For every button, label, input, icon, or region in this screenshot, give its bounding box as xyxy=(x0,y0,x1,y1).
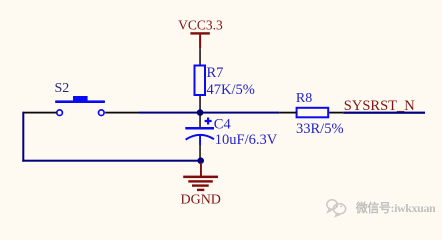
wire main net (S2 to R8) xyxy=(139,112,280,114)
wire R8 pin 1 xyxy=(279,112,296,114)
svg-text:VCC3.3: VCC3.3 xyxy=(178,17,223,32)
node junction at C4/ground xyxy=(197,157,204,164)
node junction at R7/C4 xyxy=(197,109,204,116)
power VCC3.3 xyxy=(178,17,223,48)
svg-text:10uF/6.3V: 10uF/6.3V xyxy=(215,132,278,148)
wire S2 right pin xyxy=(105,112,139,114)
resistor R7 xyxy=(195,66,206,96)
wire bottom return (node to left leg) xyxy=(22,160,200,162)
svg-text:SYSRST_N: SYSRST_N xyxy=(344,98,415,114)
wire R8 pin 2 xyxy=(329,112,343,114)
ground DGND symbol xyxy=(183,163,218,192)
svg-text:47K/5%: 47K/5% xyxy=(207,82,255,98)
svg-text:DGND: DGND xyxy=(180,193,220,208)
svg-text:R8: R8 xyxy=(296,91,312,106)
wire R7 pin 1 (to VCC) xyxy=(199,48,201,64)
wire S2 left pin xyxy=(23,112,57,114)
svg-text:微信号:iwkxuan: 微信号:iwkxuan xyxy=(355,200,436,215)
resistor R8 xyxy=(297,108,329,118)
wire C4 pin 2 (to bottom node) xyxy=(199,145,201,159)
svg-text:S2: S2 xyxy=(55,81,70,96)
svg-text:R7: R7 xyxy=(207,65,224,81)
wire left leg (S2 to bottom return) xyxy=(22,112,24,162)
wire R7 pin 2 (to node) xyxy=(199,96,201,113)
watermark wechat icon xyxy=(327,200,346,216)
wire net SYSRST_N xyxy=(343,112,425,114)
wire C4 pin 1 (top plate stub) xyxy=(199,113,201,127)
watermark text xyxy=(354,199,436,215)
capacitor C4 xyxy=(185,118,214,146)
svg-text:33R/5%: 33R/5% xyxy=(296,121,344,137)
svg-text:C4: C4 xyxy=(214,117,232,133)
switch S2 xyxy=(55,81,105,116)
